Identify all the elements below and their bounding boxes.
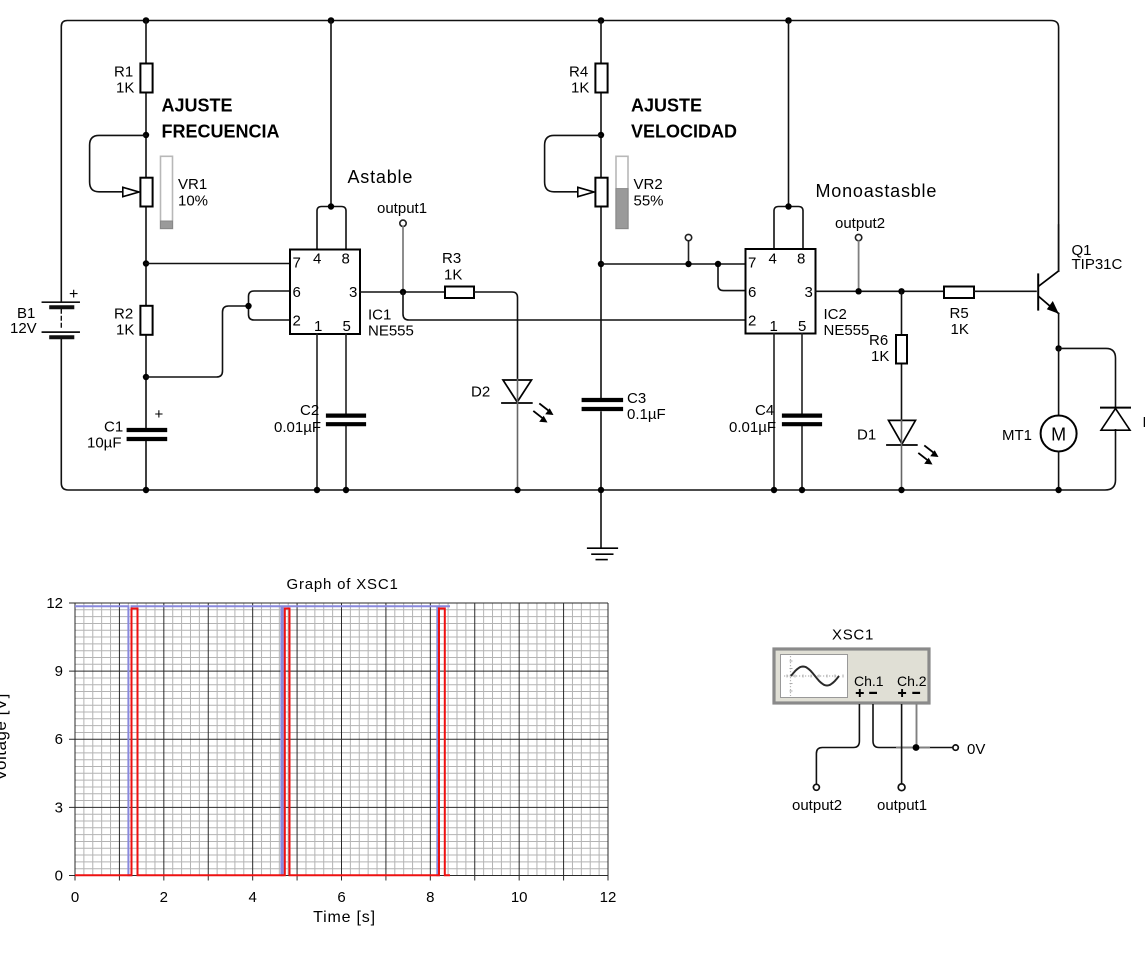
graph grid (75, 603, 608, 876)
capacitor C1 (87, 406, 165, 452)
wire scope ch1+ to output2 terminal (816, 704, 859, 784)
svg-text:1K: 1K (116, 80, 134, 97)
wire IC2 pin1 to ground (773, 334, 775, 491)
svg-text:XSC1: XSC1 (832, 627, 874, 644)
resistor R2 (114, 306, 153, 339)
node R6 junction (898, 288, 904, 294)
op-amp/timer IC1 NE555 body (290, 250, 414, 340)
svg-text:FRECUENCIA: FRECUENCIA (162, 122, 280, 142)
battery B1 (10, 286, 79, 337)
svg-text:6: 6 (748, 284, 756, 301)
node C3 ground rail (598, 487, 604, 493)
svg-text:4: 4 (313, 251, 321, 268)
svg-text:VELOCIDAD: VELOCIDAD (631, 122, 737, 142)
svg-text:Astable: Astable (348, 167, 414, 187)
resistor R4 (569, 64, 608, 97)
svg-text:6: 6 (293, 284, 301, 301)
wire IC2 supply drop (788, 21, 790, 207)
svg-text:R5: R5 (950, 305, 969, 322)
op-amp/timer IC2 NE555 body (746, 249, 870, 339)
oscilloscope XSC1 body (774, 627, 929, 704)
wire IC2 pins 4-8 merge (774, 207, 803, 250)
wire output1 to IC2 pin2 trigger (403, 292, 746, 320)
node pin5 ground (343, 487, 349, 493)
svg-text:output1: output1 (877, 797, 927, 814)
graph traces ch1 ch2 (75, 606, 450, 875)
wire IC2 pin3 output (816, 290, 945, 292)
node stub junction (685, 261, 691, 267)
svg-text:IC1: IC1 (368, 307, 391, 324)
node VR1 bottom / pin7 wire (143, 260, 149, 266)
svg-text:1K: 1K (871, 348, 889, 365)
svg-text:R1: R1 (114, 64, 133, 81)
svg-text:R2: R2 (114, 306, 133, 323)
svg-text:1K: 1K (571, 80, 589, 97)
svg-text:C3: C3 (627, 390, 646, 407)
svg-text:1K: 1K (444, 267, 462, 284)
wire D2 to ground (517, 380, 519, 491)
wire R3 to D2 (474, 292, 518, 380)
svg-text:Graph of XSC1: Graph of XSC1 (287, 576, 399, 593)
wire IC1 pin3 output (360, 291, 445, 293)
wire bottom ground rail (61, 339, 1115, 491)
node VR2 bottom junction (598, 261, 604, 267)
svg-text:3: 3 (55, 799, 63, 816)
svg-text:1: 1 (314, 318, 322, 335)
resistor R3 (442, 250, 474, 298)
svg-text:+: + (69, 286, 78, 303)
node IC1 pins 6-2 junction (245, 303, 251, 309)
svg-text:Monoastasble: Monoastasble (816, 181, 938, 201)
svg-text:5: 5 (798, 318, 806, 335)
node motor ground (1055, 487, 1061, 493)
svg-text:10: 10 (511, 889, 528, 906)
svg-text:2: 2 (748, 313, 756, 330)
node emitter junction (1055, 345, 1061, 351)
svg-text:7: 7 (293, 255, 301, 272)
svg-text:7: 7 (748, 255, 756, 272)
node top rail IC2 supply (785, 17, 792, 24)
node R2 bottom junction (143, 374, 149, 380)
node top rail R4 (598, 17, 605, 24)
svg-text:0.01µF: 0.01µF (274, 419, 321, 436)
wire IC1 pin7 horizontal (146, 263, 290, 265)
svg-text:Time [s]: Time [s] (313, 909, 376, 926)
node IC2 pin1 ground (771, 487, 777, 493)
svg-text:3: 3 (349, 284, 357, 301)
svg-text:Ch.2: Ch.2 (897, 673, 927, 689)
svg-text:+: + (155, 406, 164, 423)
node IC1 pins 4-8 junction (328, 203, 334, 209)
svg-text:1: 1 (770, 318, 778, 335)
capacitor C4 (729, 402, 820, 436)
wire IC1 pins 6-2 loop to R2 (146, 291, 290, 377)
svg-text:R4: R4 (569, 64, 588, 81)
wire top power rail with left and right drops (61, 21, 1058, 303)
svg-text:8: 8 (342, 251, 350, 268)
wire R6 branch (901, 291, 903, 420)
terminal output2 probe (813, 784, 819, 790)
svg-text:VR1: VR1 (178, 176, 207, 193)
svg-text:2: 2 (160, 889, 168, 906)
terminal output1 probe (898, 784, 905, 791)
node D1 ground (898, 487, 904, 493)
svg-text:output2: output2 (835, 215, 885, 232)
svg-text:1K: 1K (951, 321, 969, 338)
svg-text:12: 12 (46, 595, 63, 612)
svg-text:TIP31C: TIP31C (1072, 256, 1123, 273)
svg-text:0V: 0V (967, 741, 985, 758)
svg-text:6: 6 (55, 731, 63, 748)
wire scope ch2+ to output1 terminal (901, 704, 903, 784)
svg-text:NE555: NE555 (824, 322, 870, 339)
svg-text:10%: 10% (178, 193, 208, 210)
LED D1 (857, 420, 939, 464)
wire IC1 pin5 to C2 (345, 334, 347, 490)
svg-text:8: 8 (426, 889, 434, 906)
node pin1 ground (314, 487, 320, 493)
svg-text:AJUSTE: AJUSTE (631, 96, 702, 116)
ground symbol (588, 548, 618, 559)
svg-text:12: 12 (600, 889, 617, 906)
wire R1 branch vertical (145, 21, 147, 491)
svg-text:0: 0 (71, 889, 79, 906)
svg-text:Voltage [V]: Voltage [V] (0, 693, 10, 781)
diode D3 freewheel (1101, 408, 1145, 431)
svg-text:MT1: MT1 (1002, 427, 1032, 444)
svg-text:5: 5 (343, 318, 351, 335)
wire Q1 collector to rail (1058, 225, 1060, 271)
capacitor C3 (584, 390, 666, 423)
svg-text:6: 6 (337, 889, 345, 906)
svg-text:10µF: 10µF (87, 435, 122, 452)
wire R5 to Q1 base (974, 290, 1036, 292)
wire R4/VR2/C3 vertical branch (600, 21, 602, 548)
wire scope ch2- to junction (916, 704, 918, 748)
svg-text:1K: 1K (116, 322, 134, 339)
node R4/VR2 tap (598, 132, 604, 138)
node output1 junction (400, 289, 406, 295)
node R1/VR1 tap (143, 132, 149, 138)
svg-text:output1: output1 (377, 200, 427, 217)
potentiometer VR2 (578, 156, 664, 228)
svg-text:C1: C1 (104, 419, 123, 436)
terminal output1 (377, 200, 427, 292)
svg-text:AJUSTE: AJUSTE (162, 96, 233, 116)
node C1 ground rail (143, 487, 149, 493)
wire scope ch1- to 0V (873, 704, 896, 748)
wire IC1 pin1 to ground (316, 334, 318, 490)
node 0V junction (913, 744, 920, 751)
svg-text:C2: C2 (300, 402, 319, 419)
svg-text:output2: output2 (792, 797, 842, 814)
wire IC2 pin5 to C4 (801, 334, 803, 491)
wire IC2 pin7 horizontal (601, 263, 746, 265)
svg-text:NE555: NE555 (368, 323, 414, 340)
node pin6 junction (715, 261, 721, 267)
svg-text:C4: C4 (755, 402, 774, 419)
node IC2 pin5 ground (799, 487, 805, 493)
node IC2 pins 4-8 junction (785, 203, 791, 209)
wire D1 to ground (901, 420, 903, 490)
wire Q1 emitter down (1058, 314, 1060, 349)
capacitor C2 (274, 402, 364, 436)
svg-text:12V: 12V (10, 320, 37, 337)
svg-text:55%: 55% (634, 193, 664, 210)
wire emitter to freewheel diode (1059, 348, 1116, 407)
svg-text:R3: R3 (442, 250, 461, 267)
motor MT1 (1002, 348, 1077, 490)
svg-text:M: M (1051, 425, 1066, 445)
wire IC2 pin6 loop (718, 264, 746, 291)
svg-text:8: 8 (797, 251, 805, 268)
svg-text:9: 9 (55, 663, 63, 680)
svg-text:4: 4 (249, 889, 257, 906)
svg-text:Ch.1: Ch.1 (854, 673, 884, 689)
terminal output2 (835, 215, 885, 291)
potentiometer VR1 (123, 156, 208, 228)
svg-text:0.1µF: 0.1µF (627, 406, 666, 423)
svg-text:D2: D2 (471, 384, 490, 401)
svg-text:D1: D1 (857, 427, 876, 444)
svg-text:0.01µF: 0.01µF (729, 419, 776, 436)
LED D2 (471, 380, 554, 423)
wire IC1 supply drop (330, 21, 332, 207)
resistor R6 (869, 332, 907, 365)
node top rail / R1 (143, 17, 150, 24)
node output2 junction (855, 288, 861, 294)
resistor R5 (944, 287, 974, 339)
svg-text:R6: R6 (869, 332, 888, 349)
wire VR2 wiper tap (545, 135, 601, 191)
resistor R1 (114, 64, 153, 97)
svg-text:2: 2 (293, 313, 301, 330)
node top rail IC1 supply (328, 17, 335, 24)
wire IC1 pins 4-8 merge (317, 207, 346, 250)
terminal 0V (953, 745, 958, 750)
wire VR1 wiper tap (90, 135, 146, 191)
svg-text:VR2: VR2 (634, 176, 663, 193)
svg-text:3: 3 (805, 284, 813, 301)
node D2 ground (514, 487, 520, 493)
svg-text:IC2: IC2 (824, 306, 847, 323)
svg-text:0: 0 (55, 868, 63, 885)
transistor Q1 TIP31C (1038, 242, 1122, 314)
terminal open stub near IC2 (685, 234, 691, 264)
svg-text:4: 4 (769, 251, 777, 268)
